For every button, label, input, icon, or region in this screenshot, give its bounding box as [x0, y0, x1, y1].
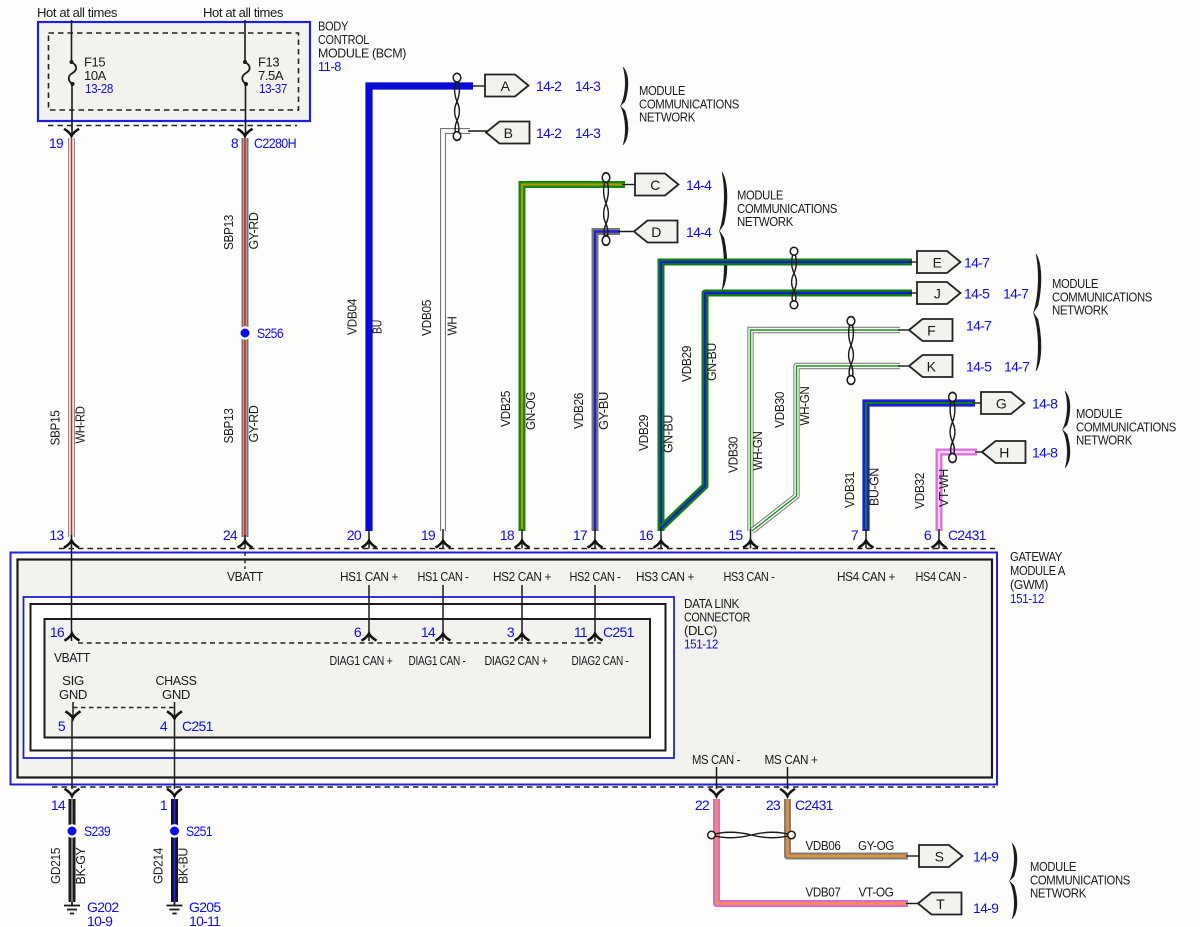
svg-text:VT-OG: VT-OG [859, 885, 894, 900]
svg-text:14-9: 14-9 [973, 900, 999, 916]
lead to C [622, 184, 636, 186]
wire fuse F13 feed [244, 20, 246, 61]
svg-text:CHASS: CHASS [156, 673, 198, 688]
svg-text:GN-OG: GN-OG [523, 392, 538, 430]
GWM top dashed line [59, 548, 995, 550]
HS2 CAN + to DIAG2 CAN + link [521, 585, 523, 641]
svg-text:16: 16 [50, 624, 65, 640]
svg-text:GN-BU: GN-BU [704, 343, 719, 381]
pin 24 [238, 535, 253, 549]
wire VDB05 WH [443, 131, 470, 531]
connector D [634, 221, 678, 243]
pin 19 [436, 529, 451, 549]
svg-text:HS1 CAN -: HS1 CAN - [418, 569, 469, 584]
svg-text:13-28: 13-28 [85, 81, 113, 96]
wire below F15 [71, 85, 73, 136]
connector J [917, 282, 961, 304]
svg-text:VDB31: VDB31 [842, 472, 857, 508]
svg-text:C251: C251 [603, 624, 635, 640]
svg-text:GD215: GD215 [48, 848, 63, 884]
svg-text:14: 14 [51, 797, 66, 813]
svg-text:14-3: 14-3 [575, 78, 601, 94]
svg-text:VDB05: VDB05 [419, 300, 434, 336]
lead to A [473, 85, 486, 87]
pin 20 [362, 529, 377, 549]
svg-text:S239: S239 [84, 823, 111, 839]
pin 6 [932, 529, 947, 549]
svg-text:8: 8 [231, 135, 239, 151]
wire VDB26 GY-BU [595, 232, 620, 532]
svg-text:BK-BU: BK-BU [176, 848, 191, 884]
svg-text:HS4 CAN -: HS4 CAN - [916, 569, 967, 584]
MS CAN + link down [787, 767, 789, 789]
svg-text:DIAG1 CAN +: DIAG1 CAN + [330, 653, 393, 668]
splice S251 [169, 825, 180, 836]
connector T [918, 893, 962, 915]
wire VDB25 GN-OG [522, 185, 625, 532]
HS1 CAN + to DIAG1 CAN + link [368, 585, 370, 641]
svg-text:14-8: 14-8 [1032, 396, 1058, 412]
GWM bottom dashed line [52, 786, 995, 788]
svg-text:VDB29: VDB29 [636, 415, 651, 451]
svg-text:6: 6 [924, 527, 932, 543]
svg-text:17: 17 [573, 527, 588, 543]
svg-text:24: 24 [223, 527, 238, 543]
svg-text:11: 11 [574, 624, 588, 640]
arrow BCM pin 8 [238, 129, 253, 136]
svg-text:C2431: C2431 [948, 527, 987, 543]
svg-text:GND: GND [162, 687, 190, 702]
svg-text:H: H [999, 445, 1008, 461]
svg-text:DIAG2 CAN -: DIAG2 CAN - [572, 653, 629, 668]
wire SBP15 WH-RD [68, 138, 75, 537]
BCM bottom dashed connector line [48, 125, 297, 127]
svg-text:14-2: 14-2 [536, 78, 562, 94]
svg-text:HS2 CAN +: HS2 CAN + [493, 569, 551, 584]
svg-text:14-7: 14-7 [964, 255, 990, 271]
svg-text:GND: GND [59, 687, 87, 702]
pin 16 [654, 529, 669, 549]
wire CHASS GND down [174, 719, 176, 789]
svg-text:151-12: 151-12 [684, 637, 718, 652]
CHASS GND wire to pin 4 [174, 702, 176, 718]
lead to H [975, 451, 983, 453]
svg-text:VDB06: VDB06 [806, 838, 841, 853]
pin 17 [588, 529, 603, 549]
svg-text:C2431: C2431 [795, 797, 834, 813]
svg-text:6: 6 [354, 624, 362, 640]
connector B [486, 122, 530, 144]
svg-text:A: A [501, 78, 511, 94]
BCM module box [38, 22, 310, 121]
wire VDB30 WH-GN (K) [752, 366, 900, 531]
svg-text:MS CAN -: MS CAN - [692, 752, 740, 767]
lead to J [910, 292, 918, 294]
svg-text:WH-RD: WH-RD [73, 406, 88, 443]
svg-text:GY-RD: GY-RD [246, 405, 261, 442]
svg-text:1: 1 [160, 797, 168, 813]
svg-text:(GWM): (GWM) [1010, 577, 1048, 592]
brace S/T group [1010, 843, 1017, 919]
svg-text:HS3 CAN -: HS3 CAN - [724, 569, 775, 584]
wire pin13 to DLC pin16 [71, 549, 73, 642]
DLC middle black box [31, 604, 666, 751]
connector E [917, 251, 961, 273]
DLC inner black box [45, 619, 651, 738]
lead to K [898, 365, 910, 367]
brace A/B group [621, 67, 628, 145]
svg-text:15: 15 [728, 527, 743, 543]
twisted pair F/K [847, 317, 855, 385]
svg-text:14-4: 14-4 [686, 224, 712, 240]
svg-text:BU-GN: BU-GN [867, 468, 882, 506]
svg-text:SIG: SIG [62, 673, 84, 688]
wire VDB30 WH-GN (F) [751, 330, 901, 531]
svg-text:C: C [650, 177, 660, 193]
wire VDB06 GY-OG [788, 799, 909, 856]
svg-text:DIAG1 CAN -: DIAG1 CAN - [409, 653, 466, 668]
svg-text:MODULE A: MODULE A [1010, 563, 1066, 578]
svg-text:16: 16 [639, 527, 654, 543]
svg-text:VDB29: VDB29 [679, 346, 694, 382]
fuse F15 [69, 60, 76, 86]
svg-text:SBP13: SBP13 [221, 408, 236, 443]
svg-text:3: 3 [507, 624, 515, 640]
lead to T [906, 903, 919, 905]
svg-text:VDB25: VDB25 [498, 391, 513, 427]
svg-text:SBP15: SBP15 [48, 410, 63, 445]
svg-text:VDB32: VDB32 [912, 473, 927, 509]
svg-text:14-7: 14-7 [1003, 286, 1029, 302]
svg-text:10-11: 10-11 [189, 913, 221, 927]
svg-text:13-37: 13-37 [259, 81, 287, 96]
wire GD214 BK-BU [171, 799, 178, 902]
svg-text:VDB04: VDB04 [345, 299, 360, 335]
svg-text:GN-BU: GN-BU [661, 415, 676, 453]
connector G [981, 392, 1025, 414]
svg-text:20: 20 [347, 527, 362, 543]
svg-text:14-3: 14-3 [575, 125, 601, 141]
twisted pair C/D [602, 173, 610, 245]
brace E/J/F/K group [1034, 254, 1041, 371]
lead to B [468, 130, 487, 132]
brace C/D group [720, 172, 727, 290]
svg-text:K: K [927, 359, 937, 375]
svg-text:NETWORK: NETWORK [737, 214, 794, 229]
svg-text:G: G [996, 396, 1006, 412]
svg-text:7: 7 [851, 527, 859, 543]
wire VDB04 BU [369, 86, 473, 531]
wire SIG GND down [71, 719, 73, 789]
wire below F13 [245, 85, 247, 136]
twisted pair G/H [949, 392, 957, 462]
svg-text:19: 19 [49, 135, 64, 151]
svg-text:4: 4 [160, 718, 168, 734]
BCM inner dashed fuse box [49, 33, 299, 110]
svg-text:VBATT: VBATT [227, 569, 263, 584]
svg-text:BU: BU [370, 320, 385, 334]
svg-text:14-4: 14-4 [686, 177, 712, 193]
svg-text:13: 13 [49, 527, 64, 543]
svg-text:C251: C251 [182, 718, 214, 734]
lead to S [906, 855, 920, 857]
svg-text:NETWORK: NETWORK [1076, 433, 1133, 448]
svg-text:GD214: GD214 [151, 848, 166, 884]
lead to G [973, 402, 982, 404]
svg-text:18: 18 [500, 527, 515, 543]
connector A [485, 75, 529, 97]
svg-text:14-5: 14-5 [964, 286, 990, 302]
connector K [909, 355, 953, 377]
wire VDB07 VT-OG [717, 799, 909, 904]
arrow DLC pin 16 [65, 634, 80, 641]
svg-text:Hot at all times: Hot at all times [203, 5, 284, 20]
pin 15 [743, 529, 758, 549]
svg-text:NETWORK: NETWORK [1052, 303, 1109, 318]
MS CAN - link down [716, 767, 718, 789]
svg-text:HS1 CAN +: HS1 CAN + [340, 569, 398, 584]
wire VDB32 VT-WH [939, 452, 977, 531]
svg-text:14: 14 [421, 624, 436, 640]
pin 13 [64, 535, 79, 549]
svg-text:HS2 CAN -: HS2 CAN - [570, 569, 621, 584]
svg-text:GATEWAY: GATEWAY [1010, 549, 1063, 564]
svg-text:151-12: 151-12 [1010, 591, 1044, 606]
svg-text:HS4 CAN +: HS4 CAN + [837, 569, 895, 584]
wire fuse F15 feed [71, 20, 73, 61]
svg-text:VDB26: VDB26 [571, 393, 586, 429]
lead to E [910, 261, 918, 263]
GWM outer blue box [11, 553, 998, 785]
DLC blue box [24, 597, 675, 758]
svg-text:14-5: 14-5 [966, 359, 992, 375]
wire GD215 BK-GY [69, 799, 76, 902]
connector S [919, 845, 963, 867]
wire SBP13 GY-RD [242, 138, 249, 537]
svg-text:MS CAN +: MS CAN + [765, 752, 818, 767]
svg-text:VDB30: VDB30 [726, 437, 741, 473]
svg-text:14-8: 14-8 [1032, 445, 1058, 461]
svg-text:14-7: 14-7 [966, 318, 992, 334]
svg-text:Hot at all times: Hot at all times [37, 5, 118, 20]
svg-text:WH-GN: WH-GN [750, 432, 765, 471]
svg-text:NETWORK: NETWORK [1030, 886, 1087, 901]
svg-text:5: 5 [58, 718, 66, 734]
svg-text:SBP13: SBP13 [221, 215, 236, 250]
svg-text:BK-GY: BK-GY [73, 847, 88, 885]
svg-text:VDB30: VDB30 [772, 392, 787, 428]
svg-text:E: E [933, 255, 942, 271]
svg-text:WH-GN: WH-GN [797, 387, 812, 426]
svg-text:J: J [934, 286, 940, 302]
svg-text:VBATT: VBATT [54, 650, 90, 665]
svg-text:S251: S251 [186, 823, 213, 839]
HS1 CAN - to DIAG1 CAN - link [442, 585, 444, 641]
svg-text:T: T [936, 896, 945, 912]
connector H [982, 441, 1026, 463]
svg-text:WH: WH [445, 316, 460, 335]
lead to F [898, 329, 910, 331]
svg-text:NETWORK: NETWORK [639, 110, 696, 125]
svg-text:DIAG2 CAN +: DIAG2 CAN + [485, 653, 548, 668]
svg-text:F: F [927, 323, 935, 339]
fuse F13 [242, 60, 249, 86]
connector C [635, 174, 679, 196]
GWM gray box [18, 560, 993, 778]
splice S256 [239, 327, 250, 338]
svg-text:19: 19 [421, 527, 436, 543]
svg-text:14-2: 14-2 [536, 125, 562, 141]
pin 18 [515, 529, 530, 549]
twisted pair S/T (horizontal) [708, 831, 796, 839]
DLC pins dashed line [78, 642, 601, 644]
svg-text:B: B [504, 125, 513, 141]
ground G205 [167, 902, 183, 914]
svg-text:HS3 CAN +: HS3 CAN + [636, 569, 694, 584]
svg-text:S256: S256 [257, 325, 284, 341]
wire VDB29 GN-BU (E) [661, 262, 912, 531]
svg-text:14-9: 14-9 [973, 849, 999, 865]
svg-text:S: S [935, 849, 944, 865]
svg-text:D: D [651, 224, 661, 240]
dashed link SIG-CHASS [73, 707, 175, 709]
svg-text:10-9: 10-9 [87, 913, 113, 927]
svg-text:11-8: 11-8 [318, 59, 341, 74]
svg-text:GY-BU: GY-BU [596, 392, 611, 430]
svg-text:C2280H: C2280H [254, 135, 296, 151]
arrow BCM pin 19 [64, 129, 79, 136]
ground G202 [64, 902, 80, 914]
svg-text:VDB07: VDB07 [806, 885, 841, 900]
dashed stub pin 24 to VBATT [244, 552, 246, 569]
svg-text:VT-WH: VT-WH [936, 469, 951, 507]
pin 7 [859, 529, 874, 549]
SIG GND wire to pin 5 [72, 702, 74, 718]
splice S239 [66, 825, 77, 836]
twisted pair A/B [453, 73, 461, 140]
svg-text:GY-OG: GY-OG [858, 838, 894, 853]
connector F [909, 319, 953, 341]
wire VDB31 BU-GN [866, 403, 975, 531]
wire VDB29 GN-BU (J) [661, 293, 912, 528]
svg-text:GY-RD: GY-RD [246, 212, 261, 249]
lead to D [618, 231, 635, 233]
brace G/H group [1063, 391, 1070, 468]
twisted pair E/J [790, 247, 798, 309]
svg-text:14-7: 14-7 [1004, 359, 1030, 375]
svg-text:22: 22 [695, 797, 710, 813]
HS2 CAN - to DIAG2 CAN - link [594, 585, 596, 641]
svg-text:23: 23 [766, 797, 781, 813]
